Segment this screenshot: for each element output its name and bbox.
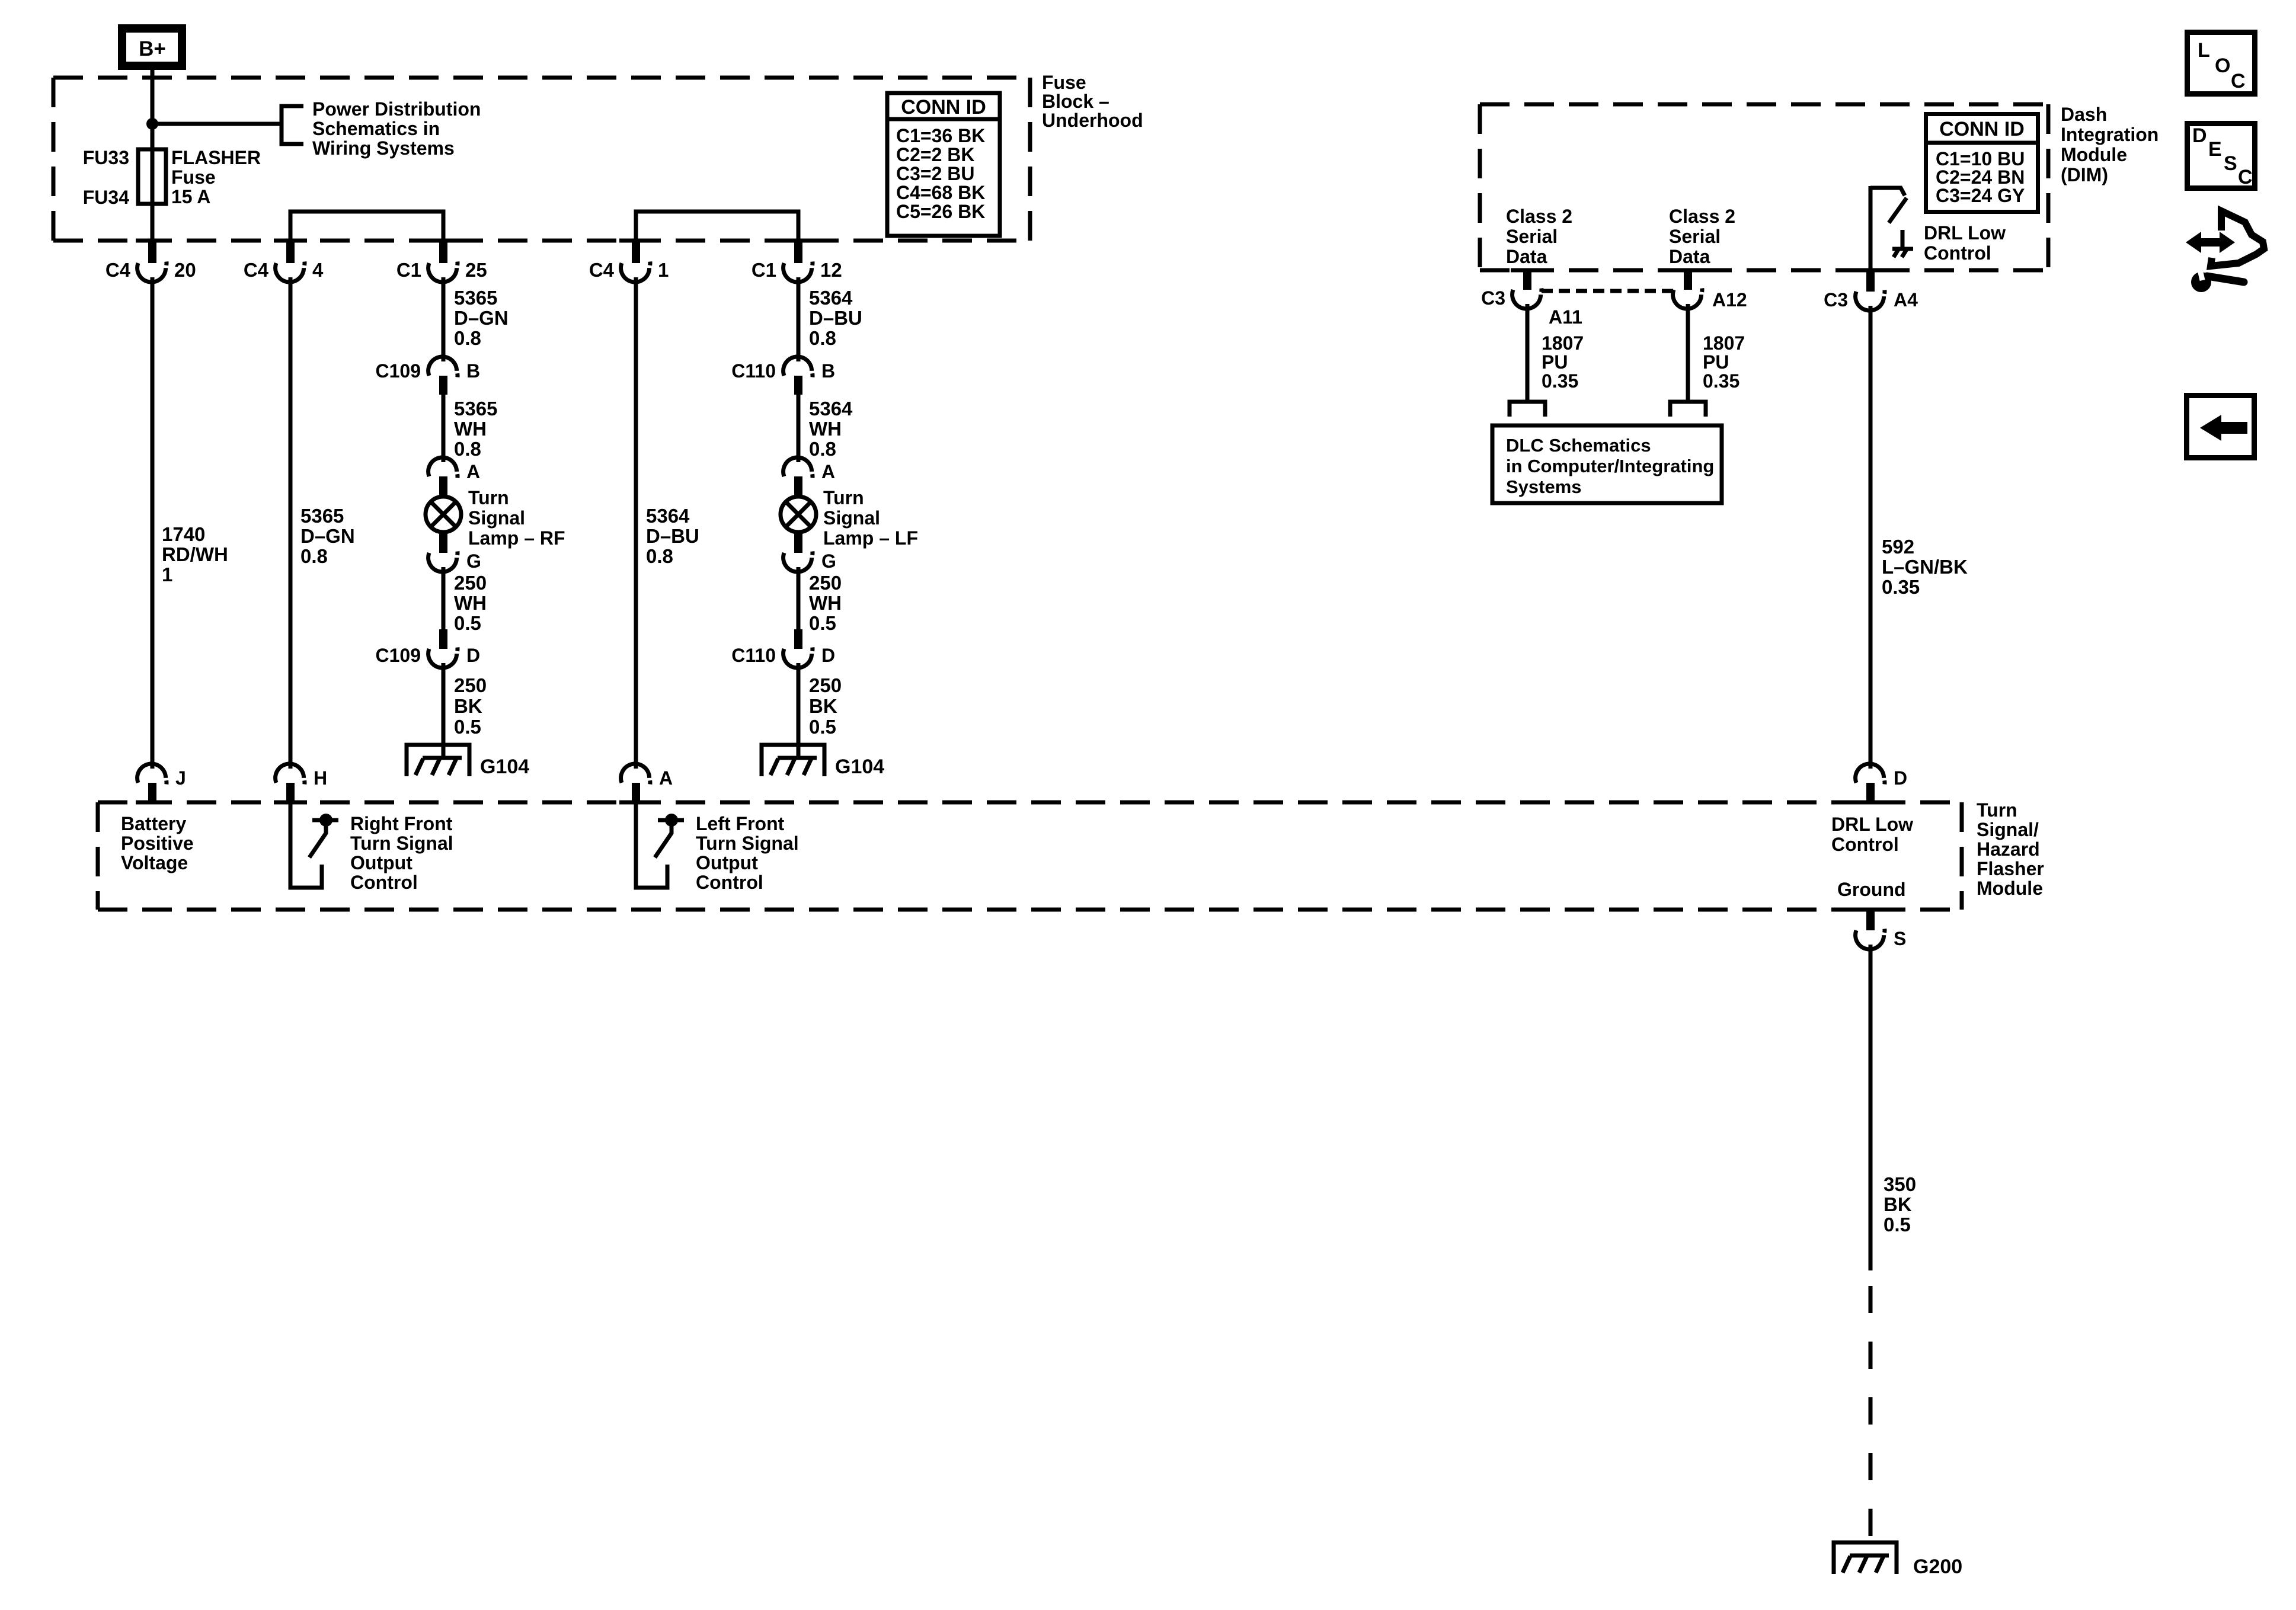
svg-text:5364: 5364 <box>809 398 853 420</box>
svg-text:C110: C110 <box>731 360 776 382</box>
svg-text:C110: C110 <box>731 645 776 666</box>
svg-text:G: G <box>821 550 836 572</box>
svg-text:G200: G200 <box>1913 1555 1962 1578</box>
svg-text:WH: WH <box>809 592 842 614</box>
svg-text:C1=36 BK: C1=36 BK <box>896 125 985 146</box>
svg-text:Signal/: Signal/ <box>1977 819 2039 840</box>
svg-text:Lamp – RF: Lamp – RF <box>468 527 565 549</box>
svg-text:CONN ID: CONN ID <box>1939 118 2025 140</box>
svg-text:5364: 5364 <box>809 287 853 309</box>
svg-text:A: A <box>659 767 673 789</box>
svg-text:B: B <box>466 360 480 382</box>
svg-text:Left Front: Left Front <box>696 813 785 834</box>
svg-text:Hazard: Hazard <box>1977 838 2040 860</box>
svg-text:D: D <box>466 645 480 666</box>
svg-text:C4: C4 <box>244 259 269 281</box>
svg-text:250: 250 <box>809 674 842 696</box>
svg-text:Block –: Block – <box>1042 91 1109 112</box>
svg-text:Positive: Positive <box>121 833 194 854</box>
svg-text:PU: PU <box>1542 351 1568 373</box>
svg-text:A: A <box>821 461 835 482</box>
svg-text:C5=26 BK: C5=26 BK <box>896 201 985 222</box>
svg-text:Module: Module <box>2061 144 2127 165</box>
svg-text:0.5: 0.5 <box>1884 1214 1911 1235</box>
svg-text:4: 4 <box>312 259 324 281</box>
svg-text:0.8: 0.8 <box>646 545 673 567</box>
svg-text:Control: Control <box>696 872 763 893</box>
svg-text:in Computer/Integrating: in Computer/Integrating <box>1506 456 1714 476</box>
svg-text:1807: 1807 <box>1703 332 1745 354</box>
svg-text:G104: G104 <box>480 756 529 778</box>
svg-text:C2=2 BK: C2=2 BK <box>896 144 975 165</box>
svg-text:WH: WH <box>809 418 842 440</box>
svg-text:C1: C1 <box>752 259 776 281</box>
svg-text:D: D <box>1894 767 1907 789</box>
svg-text:G104: G104 <box>835 756 884 778</box>
svg-text:A12: A12 <box>1712 289 1747 311</box>
svg-text:0.8: 0.8 <box>300 545 328 567</box>
svg-text:Module: Module <box>1977 878 2043 899</box>
svg-text:A4: A4 <box>1894 289 1918 311</box>
svg-text:H: H <box>314 767 327 789</box>
svg-text:0.8: 0.8 <box>809 327 836 349</box>
svg-text:12: 12 <box>820 259 842 281</box>
svg-text:0.35: 0.35 <box>1882 576 1920 598</box>
svg-text:J: J <box>175 767 186 789</box>
svg-text:D–GN: D–GN <box>300 525 355 547</box>
svg-text:WH: WH <box>454 418 487 440</box>
svg-text:C109: C109 <box>376 360 421 382</box>
svg-text:C4=68 BK: C4=68 BK <box>896 182 985 203</box>
svg-text:Fuse: Fuse <box>1042 72 1086 93</box>
svg-text:Flasher: Flasher <box>1977 858 2044 879</box>
svg-text:L–GN/BK: L–GN/BK <box>1882 556 1968 578</box>
svg-text:25: 25 <box>465 259 487 281</box>
svg-text:1740: 1740 <box>162 523 205 545</box>
svg-text:0.5: 0.5 <box>454 612 481 634</box>
svg-text:BK: BK <box>454 695 482 717</box>
svg-text:C4: C4 <box>589 259 615 281</box>
svg-text:Battery: Battery <box>121 813 186 834</box>
svg-text:Fuse: Fuse <box>171 167 216 188</box>
svg-text:15 A: 15 A <box>171 186 210 207</box>
svg-text:O: O <box>2215 55 2230 77</box>
svg-text:S: S <box>1894 928 1906 949</box>
svg-text:Integration: Integration <box>2061 124 2159 145</box>
svg-text:BK: BK <box>809 695 837 717</box>
svg-text:Power Distribution: Power Distribution <box>312 98 481 120</box>
svg-text:0.35: 0.35 <box>1542 370 1578 392</box>
svg-text:BK: BK <box>1884 1193 1912 1215</box>
svg-text:DLC Schematics: DLC Schematics <box>1506 435 1651 456</box>
svg-text:Turn Signal: Turn Signal <box>350 833 453 854</box>
svg-text:250: 250 <box>809 572 842 594</box>
svg-text:Turn: Turn <box>468 487 509 508</box>
svg-text:250: 250 <box>454 572 487 594</box>
svg-text:Class 2: Class 2 <box>1669 206 1735 227</box>
svg-text:D–BU: D–BU <box>809 307 862 329</box>
svg-text:Data: Data <box>1506 246 1547 267</box>
svg-text:C: C <box>2231 70 2246 92</box>
svg-text:S: S <box>2224 152 2237 175</box>
svg-text:Right Front: Right Front <box>350 813 453 834</box>
svg-text:Voltage: Voltage <box>121 852 188 873</box>
svg-text:WH: WH <box>454 592 487 614</box>
svg-text:5364: 5364 <box>646 505 690 527</box>
svg-text:1807: 1807 <box>1542 332 1584 354</box>
svg-text:Wiring Systems: Wiring Systems <box>312 137 455 159</box>
svg-text:Control: Control <box>1924 242 1991 264</box>
svg-text:Control: Control <box>350 872 418 893</box>
svg-text:Systems: Systems <box>1506 476 1582 497</box>
svg-text:C: C <box>2238 166 2253 188</box>
svg-text:E: E <box>2208 138 2222 161</box>
svg-text:D–BU: D–BU <box>646 525 699 547</box>
svg-text:Control: Control <box>1831 834 1899 855</box>
svg-text:Signal: Signal <box>823 507 880 529</box>
svg-text:Turn: Turn <box>1977 799 2017 821</box>
svg-text:Underhood: Underhood <box>1042 110 1143 131</box>
svg-text:C3=24 GY: C3=24 GY <box>1936 185 2025 206</box>
svg-text:0.5: 0.5 <box>809 716 836 738</box>
svg-text:D–GN: D–GN <box>454 307 509 329</box>
svg-text:Turn Signal: Turn Signal <box>696 833 799 854</box>
svg-text:DRL Low: DRL Low <box>1924 222 2006 244</box>
svg-text:Serial: Serial <box>1506 226 1558 247</box>
svg-text:FU33: FU33 <box>83 147 129 168</box>
svg-text:Schematics in: Schematics in <box>312 118 440 139</box>
svg-text:(DIM): (DIM) <box>2061 164 2108 185</box>
svg-text:A11: A11 <box>1549 306 1582 328</box>
svg-text:Output: Output <box>350 852 412 873</box>
svg-text:Class 2: Class 2 <box>1506 206 1572 227</box>
svg-text:C1: C1 <box>396 259 421 281</box>
svg-text:Signal: Signal <box>468 507 525 529</box>
svg-text:FLASHER: FLASHER <box>171 147 261 168</box>
svg-text:Turn: Turn <box>823 487 864 508</box>
svg-text:Serial: Serial <box>1669 226 1721 247</box>
svg-text:0.8: 0.8 <box>454 327 481 349</box>
svg-text:5365: 5365 <box>454 287 497 309</box>
svg-text:Data: Data <box>1669 246 1710 267</box>
svg-text:RD/WH: RD/WH <box>162 543 228 565</box>
svg-text:350: 350 <box>1884 1173 1916 1195</box>
svg-text:Output: Output <box>696 852 758 873</box>
svg-text:L: L <box>2198 39 2210 62</box>
svg-text:C4: C4 <box>105 259 131 281</box>
svg-text:FU34: FU34 <box>83 187 129 208</box>
svg-text:C3: C3 <box>1824 289 1848 311</box>
svg-text:B+: B+ <box>139 37 166 60</box>
svg-text:Dash: Dash <box>2061 104 2107 125</box>
svg-text:0.5: 0.5 <box>454 716 481 738</box>
svg-text:5365: 5365 <box>454 398 497 420</box>
svg-text:1: 1 <box>658 259 669 281</box>
svg-text:A: A <box>466 461 480 482</box>
svg-text:D: D <box>2192 124 2207 147</box>
svg-text:D: D <box>821 645 835 666</box>
svg-text:C109: C109 <box>376 645 421 666</box>
svg-text:C3: C3 <box>1481 287 1505 309</box>
svg-text:0.5: 0.5 <box>809 612 836 634</box>
svg-text:20: 20 <box>174 259 196 281</box>
svg-text:5365: 5365 <box>300 505 344 527</box>
svg-text:Lamp – LF: Lamp – LF <box>823 527 918 549</box>
svg-text:B: B <box>821 360 835 382</box>
svg-text:0.8: 0.8 <box>809 438 836 460</box>
svg-text:C3=2 BU: C3=2 BU <box>896 163 975 184</box>
svg-text:1: 1 <box>162 564 172 585</box>
svg-text:0.8: 0.8 <box>454 438 481 460</box>
svg-text:CONN ID: CONN ID <box>901 96 986 119</box>
svg-text:G: G <box>466 550 481 572</box>
svg-text:PU: PU <box>1703 351 1729 373</box>
svg-text:250: 250 <box>454 674 487 696</box>
svg-text:Ground: Ground <box>1837 879 1906 900</box>
svg-text:DRL Low: DRL Low <box>1831 814 1913 835</box>
svg-text:0.35: 0.35 <box>1703 370 1739 392</box>
svg-text:592: 592 <box>1882 536 1914 558</box>
